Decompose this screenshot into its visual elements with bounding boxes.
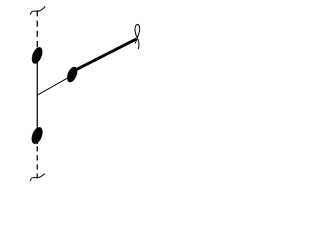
wire: thick rod from middle bead to looped tip: [70, 39, 137, 73]
bead: middle ellipse on rod: [65, 65, 79, 84]
bead: lower ellipse on axis: [29, 126, 44, 146]
wire: dashed vertical axis, upper segment: [36, 10, 38, 48]
wire: dashed vertical axis, lower segment: [36, 146, 38, 177]
wire: thin rod from axis junction to middle bead: [37, 75, 72, 95]
loop at tip of thick rod: [135, 24, 140, 48]
wire: solid vertical axis between beads: [36, 48, 38, 145]
bead: upper ellipse on axis: [30, 46, 45, 66]
squiggle break symbol, top of axis: [30, 7, 45, 15]
squiggle break symbol, bottom of axis: [30, 174, 44, 181]
